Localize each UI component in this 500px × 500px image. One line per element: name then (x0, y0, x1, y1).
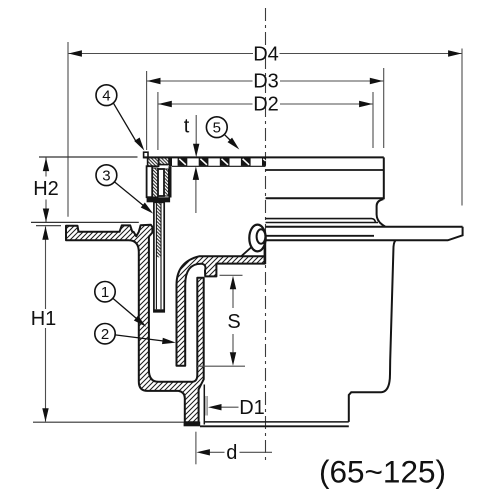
svg-text:D2: D2 (253, 94, 279, 116)
frame (part 4) top-left (144, 152, 148, 157)
D3 line (147, 80, 253, 82)
svg-text:(65~125): (65~125) (319, 454, 446, 490)
grate top line (144, 156, 384, 158)
right half outline (200, 157, 463, 426)
dimension texts (31, 44, 279, 465)
S dim (220, 274, 243, 276)
D2 line (158, 103, 253, 105)
svg-text:D3: D3 (253, 71, 279, 93)
svg-text:H2: H2 (33, 178, 59, 200)
dims (31, 42, 462, 464)
svg-text:D4: D4 (253, 44, 279, 66)
t dim (195, 115, 197, 144)
svg-text:D1: D1 (239, 397, 265, 419)
svg-text:4: 4 (102, 88, 110, 105)
D4 extension lines (67, 42, 69, 217)
H2 dim (45, 158, 47, 177)
svg-text:H1: H1 (31, 308, 57, 330)
svg-text:5: 5 (213, 120, 221, 137)
svg-text:S: S (227, 311, 240, 333)
D1 dim (221, 406, 239, 408)
D3 extension lines (146, 71, 148, 150)
D2 extension lines (157, 92, 159, 150)
funnel / deodorant tube (part 2) (177, 256, 265, 366)
grate lower edge line (left) (172, 165, 266, 167)
body P1 section (66, 152, 463, 426)
d dim (195, 432, 197, 465)
curl at centerline (249, 225, 265, 252)
svg-text:t: t (184, 116, 190, 138)
H1 dim (45, 227, 47, 310)
socket far inner edge line (203, 385, 205, 425)
part 3 adjusting collar (154, 202, 164, 311)
leader lines + arrowheads for circled numbers (113, 103, 231, 341)
svg-text:2: 2 (101, 326, 109, 343)
arrowheads (42, 50, 461, 455)
floor reference lines (39, 156, 138, 158)
D4 line (68, 53, 253, 55)
svg-text:1: 1 (101, 284, 109, 301)
svg-text:3: 3 (102, 168, 110, 185)
socket bottom rim (black) (184, 422, 201, 427)
D1 pipe thin lines (205, 396, 207, 416)
centerline (265, 8, 267, 464)
svg-text:d: d (226, 442, 237, 464)
drain body casting (part 1, left section with hatch) (66, 225, 204, 423)
grate bars (part 5) (178, 158, 266, 166)
circled numbers (95, 85, 227, 344)
